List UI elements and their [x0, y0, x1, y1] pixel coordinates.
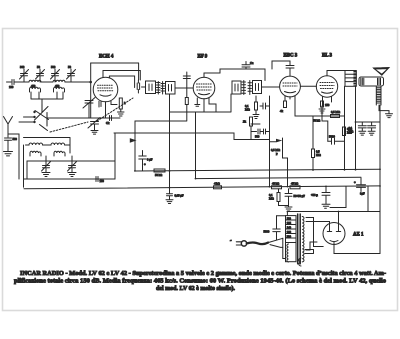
capacitor C tone 2 [368, 122, 376, 131]
power transformer tap box [286, 216, 297, 262]
svg-text:MΩ: MΩ [245, 108, 250, 112]
coil L1 secondary [30, 84, 41, 92]
capacitor C8uF screen [139, 151, 153, 171]
wire detector out [270, 139, 281, 141]
wire left vertical a [18, 134, 20, 179]
gang dashed link [97, 98, 133, 121]
wire V2 plate top [204, 69, 265, 81]
trimmer C3 [51, 65, 60, 82]
ground cathode V4 [319, 109, 325, 113]
coil L1 antenna [24, 80, 47, 82]
power transformer core [298, 214, 301, 264]
resistor R 025 [343, 127, 353, 136]
wire vertical x115 [114, 133, 116, 179]
variable capacitor tuning VC1 [83, 98, 95, 119]
capacitor C line filter [264, 216, 281, 240]
resistor R 45k bus C [290, 182, 300, 189]
arrow tone pot [130, 139, 135, 142]
wire pin2 to bus [287, 186, 380, 225]
svg-text:EL 3: EL 3 [322, 54, 332, 59]
capacitor Cg1 [99, 102, 101, 107]
svg-text:500: 500 [51, 65, 56, 69]
bus AVC left [24, 178, 116, 180]
svg-text:50 kΩ: 50 kΩ [313, 119, 320, 123]
resistor R 01M below bus [269, 189, 280, 206]
tube V1 ECH4 [93, 71, 118, 119]
svg-text:0,5 MΩ: 0,5 MΩ [331, 110, 340, 114]
resistor R 40k bus C [272, 182, 282, 189]
trimmer C2 [36, 65, 45, 82]
ground antenna [4, 152, 13, 156]
svg-text:8 μF: 8 μF [147, 158, 153, 162]
wire IFT1 bottom [170, 94, 232, 194]
ground cathode V2 pin [195, 98, 200, 106]
svg-text:4 kΩ: 4 kΩ [214, 182, 220, 186]
wire IFT2 to V3 grid [262, 86, 280, 88]
capacitor C tone 1 [358, 122, 366, 131]
mains plug [230, 239, 247, 247]
svg-text:MΩ: MΩ [269, 197, 274, 201]
coil L3 oscillator [26, 143, 49, 145]
resistor R cathode V4 [321, 101, 330, 109]
trimmer C5 [42, 156, 51, 172]
resistor R cathode V3 [280, 101, 287, 113]
svg-text:150: 150 [325, 103, 330, 107]
wire x135 [134, 121, 136, 170]
coil L4 oscillator [48, 143, 70, 153]
band switch S1 [34, 105, 49, 131]
wire switch to mixer [47, 117, 120, 119]
ground R osc [118, 112, 125, 116]
wire mains to primary top [277, 216, 286, 259]
resistor R cathode V2 [185, 98, 188, 105]
trimmer C6 [68, 156, 77, 172]
svg-text:500: 500 [13, 137, 18, 141]
ground det [253, 115, 259, 119]
ground trimmer C6 [68, 173, 76, 177]
pilot lamp winding [299, 258, 301, 266]
svg-text:500: 500 [255, 135, 260, 139]
wire x344 [344, 86, 346, 170]
ground VC2 [91, 131, 98, 135]
svg-text:450: 450 [55, 84, 60, 88]
svg-text:40 kΩ: 40 kΩ [272, 182, 279, 186]
trimmer C1 [20, 65, 29, 82]
ground C 005 [166, 200, 173, 204]
svg-text:EBC 3: EBC 3 [284, 54, 298, 59]
variable capacitor tuning VC2 [88, 118, 100, 131]
resistor R 4k bus C [214, 182, 222, 189]
wire left vertical b [23, 145, 25, 187]
coil L2 antenna [47, 80, 91, 82]
wire top 1 [91, 62, 139, 64]
capacitor C AVC [183, 76, 190, 79]
output transformer primary [345, 71, 356, 87]
IF transformer 1 box left [142, 81, 156, 94]
svg-text:MΩ: MΩ [347, 131, 352, 135]
capacitor C IF1 input [137, 80, 139, 93]
wire top 3 [109, 76, 134, 88]
ground speaker [379, 105, 393, 118]
gang dashed link 2 [50, 122, 88, 132]
svg-text:100: 100 [9, 85, 14, 89]
tube V3 EBC3 [280, 73, 301, 116]
wire x196 stub [195, 112, 197, 178]
speaker magnet box [359, 77, 384, 86]
svg-text:5000: 5000 [264, 230, 270, 234]
speaker horn [374, 68, 390, 76]
capacitor C 50+50 [279, 189, 306, 207]
IF transformer 2 box left [232, 81, 241, 94]
svg-text:125: 125 [287, 221, 292, 225]
svg-text:plificazione totale circa 150: plificazione totale circa 150 dB. Media … [14, 277, 386, 284]
coil L2 secondary [54, 84, 65, 92]
wire switch contacts left [19, 117, 35, 122]
wire top 2 [103, 71, 140, 81]
wire coil secondaries to switch [31, 92, 63, 105]
bus A [135, 169, 381, 171]
wire field coil return [330, 187, 346, 208]
capacitor C V3 top [272, 61, 294, 73]
svg-text:EF 9: EF 9 [198, 55, 208, 60]
coil L3 secondary [30, 151, 41, 156]
svg-text:Ck: Ck [106, 121, 110, 125]
potentiometer volume [271, 138, 288, 187]
capacitor C 005 [167, 194, 184, 200]
wire right long vertical [379, 105, 381, 254]
resistor R det 2 [243, 117, 253, 128]
capacitor C 100 on AVC [96, 177, 104, 184]
wire y133 [114, 133, 251, 140]
wire left vertical c [26, 161, 28, 179]
svg-text:MΩ: MΩ [316, 153, 321, 157]
ground C tone 2 [368, 131, 375, 135]
ground C 50uF [322, 204, 330, 208]
wire secondary HV 1 [306, 218, 323, 247]
node A [90, 81, 92, 83]
wire vertical left of V1 [90, 63, 92, 118]
ground C 50+50 [285, 207, 292, 211]
svg-text:50 kΩ: 50 kΩ [155, 173, 162, 177]
wire tone branch [356, 121, 381, 123]
resistor R det 1 [245, 96, 258, 115]
resistor R 50k on bus A [154, 169, 165, 177]
svg-text:45 kΩ: 45 kΩ [291, 182, 298, 186]
capacitor C coupling 5000 [328, 135, 344, 145]
capacitor C series antenna [7, 80, 25, 90]
IF transformer 1 box right [166, 82, 182, 95]
mains cable [247, 243, 268, 245]
svg-text:220: 220 [287, 234, 292, 238]
svg-text:del mod. LV 62 è molto simile): del mod. LV 62 è molto simile). [156, 285, 235, 292]
svg-text:50+50 μF: 50+50 μF [294, 194, 306, 198]
svg-text:ECH 4: ECH 4 [99, 55, 114, 60]
resistor R grid V4 [331, 110, 341, 118]
power transformer primary winding [287, 244, 289, 262]
capacitor Cu [242, 61, 254, 69]
wire x138 top [138, 63, 140, 80]
svg-text:0,05 μF: 0,05 μF [175, 194, 184, 198]
capacitor C antenna [5, 137, 18, 151]
svg-text:160: 160 [287, 230, 292, 234]
power transformer secondary winding [302, 217, 304, 262]
oscillator box top [24, 138, 71, 146]
capacitor C 50uF field [311, 187, 330, 204]
wire secondary HV 2 [306, 222, 330, 225]
coil L4 secondary [54, 151, 65, 156]
svg-text:+50 μ: +50 μ [311, 193, 318, 197]
svg-text:INCAR RADIO - Modd. LV 62 e LV: INCAR RADIO - Modd. LV 62 e LV 42 - Supe… [20, 270, 386, 277]
svg-text:AZ 1: AZ 1 [353, 233, 364, 238]
svg-text:100: 100 [100, 179, 105, 183]
svg-text:Cu: Cu [250, 61, 254, 65]
wire oscillator top [27, 160, 115, 162]
shield box detector [251, 124, 270, 140]
bus B [196, 177, 362, 178]
capacitor Ck mixer [106, 116, 112, 126]
trimmer C4 [67, 65, 76, 82]
wire V4 grid drop [322, 106, 328, 141]
grid network V4 wire [295, 116, 344, 123]
wire antenna to switch [8, 133, 19, 135]
ground trimmer C5 [42, 173, 50, 177]
IF transformer 2 coils [242, 81, 252, 95]
svg-text:8μF: 8μF [360, 192, 365, 196]
wire AZ1 output [334, 245, 380, 254]
antenna [4, 117, 13, 138]
wire OT primary B plus [355, 86, 357, 170]
svg-text:5000: 5000 [329, 135, 335, 139]
wire AVC drop [135, 72, 187, 121]
capacitor C 8uF main [354, 178, 366, 196]
svg-text:110: 110 [287, 216, 292, 220]
resistor R 05M [312, 116, 321, 170]
tube V2 EF9 [181, 73, 215, 112]
wire secondary filament [306, 242, 317, 250]
tube V4 EL3 [300, 71, 345, 107]
resistor R osc [119, 98, 126, 112]
svg-text:140: 140 [287, 225, 292, 229]
tube V5 AZ1 [323, 223, 345, 245]
IF transformer 1 coils [157, 82, 165, 95]
switch mains [268, 238, 283, 247]
bus C [24, 186, 380, 189]
IF transformer 2 box right [253, 81, 262, 94]
capacitor C 500 double [252, 129, 270, 139]
svg-text:450: 450 [31, 84, 36, 88]
capacitor C det [260, 103, 270, 109]
svg-text:300: 300 [20, 65, 25, 69]
ground C tone 1 [349, 126, 366, 135]
output transformer secondary [376, 86, 381, 105]
wire heater leads [305, 250, 314, 254]
wire x269 [269, 96, 271, 187]
